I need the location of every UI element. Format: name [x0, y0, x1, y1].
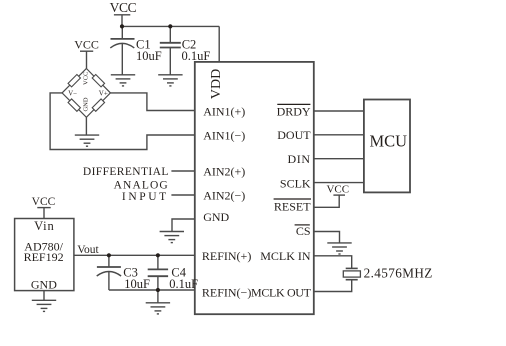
svg-text:MCLK IN: MCLK IN — [260, 249, 311, 263]
svg-text:VCC: VCC — [326, 184, 349, 196]
svg-text:10uF: 10uF — [136, 49, 162, 63]
svg-text:REFIN(−): REFIN(−) — [202, 285, 251, 299]
svg-text:VCC: VCC — [74, 37, 99, 51]
svg-text:0.1uF: 0.1uF — [169, 277, 198, 291]
svg-text:REFIN(+): REFIN(+) — [202, 249, 251, 263]
svg-text:V−: V− — [68, 90, 77, 98]
svg-text:CS: CS — [296, 224, 311, 238]
svg-text:10uF: 10uF — [124, 277, 150, 291]
svg-text:2.4576MHZ: 2.4576MHZ — [364, 266, 433, 281]
svg-text:REF192: REF192 — [24, 250, 64, 264]
svg-text:DOUT: DOUT — [277, 128, 311, 142]
svg-text:MCLK OUT: MCLK OUT — [251, 285, 312, 299]
svg-text:VCC: VCC — [83, 72, 90, 85]
svg-text:V+: V+ — [99, 90, 108, 98]
svg-text:GND: GND — [31, 278, 57, 292]
svg-text:VCC: VCC — [32, 196, 56, 208]
svg-text:Vin: Vin — [34, 219, 54, 233]
svg-text:SCLK: SCLK — [280, 177, 311, 191]
svg-text:AIN1(−): AIN1(−) — [203, 128, 245, 142]
svg-text:DIFFERENTIAL: DIFFERENTIAL — [83, 166, 169, 178]
svg-text:AIN2(+): AIN2(+) — [203, 164, 245, 178]
svg-text:0.1uF: 0.1uF — [182, 49, 211, 63]
svg-text:INPUT: INPUT — [122, 191, 169, 203]
svg-text:DIN: DIN — [287, 152, 310, 166]
svg-text:GND: GND — [203, 210, 229, 224]
svg-text:DRDY: DRDY — [277, 104, 311, 118]
svg-text:MCU: MCU — [370, 132, 408, 151]
svg-text:Vout: Vout — [77, 244, 99, 256]
svg-text:VDD: VDD — [209, 69, 224, 99]
svg-text:AIN1(+): AIN1(+) — [203, 104, 245, 118]
svg-text:AIN2(−): AIN2(−) — [203, 188, 245, 202]
svg-text:GND: GND — [83, 97, 90, 111]
svg-text:ANALOG: ANALOG — [114, 179, 169, 191]
svg-text:RESET: RESET — [274, 200, 311, 214]
svg-text:VCC: VCC — [110, 0, 137, 15]
